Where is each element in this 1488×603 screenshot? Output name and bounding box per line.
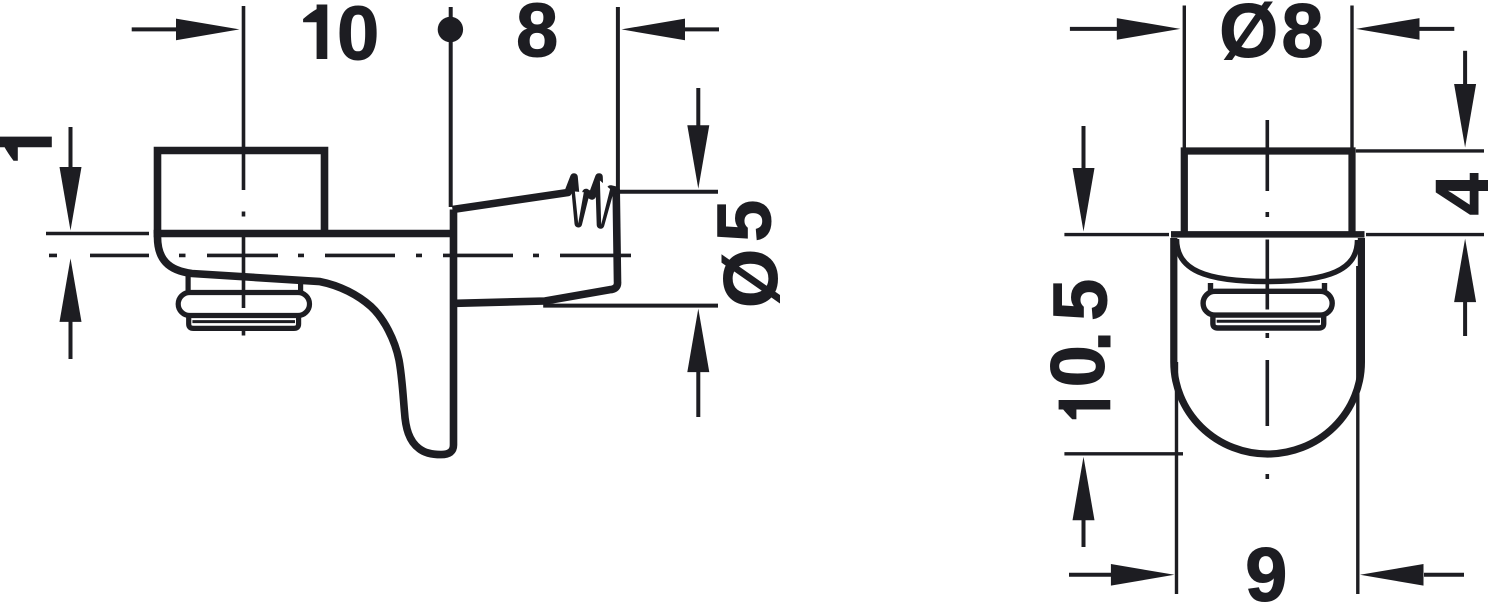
- svg-text:8: 8: [1281, 0, 1323, 74]
- svg-text:0: 0: [1036, 345, 1121, 387]
- svg-text:5: 5: [703, 200, 788, 242]
- svg-text:9: 9: [1245, 533, 1287, 603]
- svg-text:5: 5: [1038, 279, 1123, 321]
- svg-text:0: 0: [337, 0, 379, 77]
- svg-text:Ø: Ø: [1219, 0, 1278, 74]
- svg-text:Ø: Ø: [709, 249, 794, 308]
- svg-text:4: 4: [1421, 173, 1488, 215]
- svg-text:8: 8: [516, 0, 558, 74]
